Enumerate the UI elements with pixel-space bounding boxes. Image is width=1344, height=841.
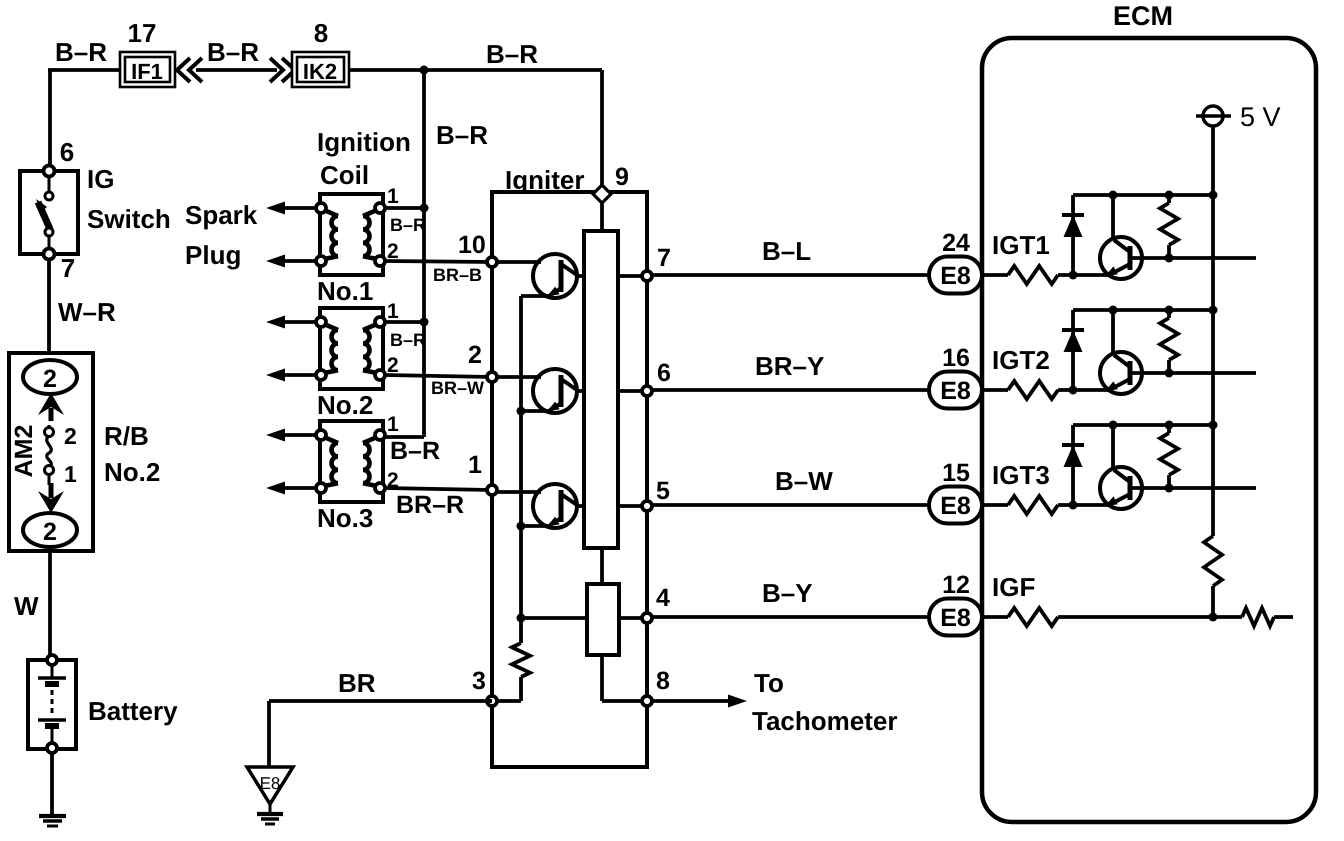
transistor Q6 (ECM output stage) xyxy=(1100,467,1142,509)
wire B-R from IG switch pin 6 up and right to connector IF1 xyxy=(48,70,52,170)
resistor R5 (pull-up to rail) xyxy=(1167,310,1171,318)
wire W from relay block to battery xyxy=(48,551,52,656)
svg-text:B–R: B–R xyxy=(390,330,426,350)
wire BR-R coil No.3 pin 2 to igniter pin 1 xyxy=(385,488,492,490)
svg-text:7: 7 xyxy=(61,253,75,283)
emitter rail inside igniter xyxy=(519,296,523,643)
svg-text:9: 9 xyxy=(615,163,629,191)
svg-text:8: 8 xyxy=(656,667,670,695)
svg-text:Coil: Coil xyxy=(320,160,369,190)
wire supply rail (Q5 stage) xyxy=(1073,308,1213,312)
svg-text:7: 7 xyxy=(657,244,671,272)
battery terminal bottom xyxy=(47,743,57,753)
igniter box xyxy=(492,192,647,767)
svg-text:E8: E8 xyxy=(260,774,281,793)
svg-text:B–R: B–R xyxy=(436,120,488,150)
svg-text:B–R: B–R xyxy=(390,437,440,465)
svg-text:IF1: IF1 xyxy=(131,59,163,84)
wire base line of Q4 xyxy=(1130,256,1256,260)
resistor R6 (pull-up to rail) xyxy=(1167,425,1171,433)
svg-text:1: 1 xyxy=(468,451,482,479)
spark plug wire arrows (No.1) xyxy=(280,206,318,210)
svg-text:B–W: B–W xyxy=(775,466,833,496)
svg-text:No.2: No.2 xyxy=(104,457,160,487)
svg-text:Switch: Switch xyxy=(87,204,171,234)
svg-text:1: 1 xyxy=(387,300,399,323)
resistor (IGT2 input) xyxy=(982,388,1008,392)
resistor (IGT3 input) xyxy=(982,503,1008,507)
svg-text:E8: E8 xyxy=(940,604,971,632)
svg-text:B–L: B–L xyxy=(762,236,811,266)
wire supply rail (Q4 stage) xyxy=(1073,193,1213,197)
wire base input to Q3 xyxy=(492,490,541,494)
node junction at coil No.2 pin 1 xyxy=(420,318,429,327)
svg-text:1: 1 xyxy=(64,461,77,487)
resistor R4 (pull-up to rail) xyxy=(1167,195,1171,203)
wire emitter of Q1 to common rail xyxy=(521,294,550,298)
node emitter to sense resistor junction xyxy=(517,614,526,623)
svg-text:3: 3 xyxy=(472,667,486,695)
wire emitter of Q3 to common rail xyxy=(521,524,550,528)
transistor Q4 (ECM output stage) xyxy=(1100,237,1142,279)
wire input to transistor Q6 xyxy=(1058,503,1110,507)
transistor Q2 (igniter driver) xyxy=(533,369,577,413)
connector E8 pin 16 (IGT2) xyxy=(929,372,982,409)
svg-text:IG: IG xyxy=(87,164,114,194)
node emitter junction Q2 xyxy=(517,407,526,416)
node diamond junction pin 9 xyxy=(593,185,611,203)
diode D3 (clamp to rail) xyxy=(1071,425,1075,505)
svg-text:Spark: Spark xyxy=(185,200,258,230)
transistor Q1 (igniter driver) xyxy=(533,254,577,298)
wire BR-W coil No.2 pin 2 to igniter pin 2 xyxy=(385,375,492,377)
IG switch SW1 xyxy=(20,171,78,254)
svg-text:2: 2 xyxy=(43,365,57,393)
svg-text:BR: BR xyxy=(338,668,376,698)
svg-text:Tachometer: Tachometer xyxy=(752,706,897,736)
connector IF1 xyxy=(120,52,175,87)
svg-text:W: W xyxy=(14,591,39,621)
svg-text:IGT2: IGT2 xyxy=(992,345,1050,375)
arrow down into bottom cavity xyxy=(49,483,54,498)
IG switch pin 7 terminal xyxy=(44,249,55,260)
ignition coil No.3 xyxy=(320,421,383,502)
svg-text:1: 1 xyxy=(387,185,399,208)
wire emitter of Q2 to common rail xyxy=(521,409,550,413)
svg-text:17: 17 xyxy=(128,18,157,48)
ignition coil No.2 xyxy=(320,308,383,389)
coil No.2 terminals xyxy=(316,317,326,327)
svg-text:5 V: 5 V xyxy=(1240,102,1281,132)
ECM box xyxy=(982,38,1316,822)
node junctions (Q6 stage) xyxy=(1109,421,1118,430)
igniter internal output bar xyxy=(584,231,618,548)
svg-text:10: 10 xyxy=(458,231,486,259)
svg-text:12: 12 xyxy=(942,571,970,599)
svg-text:2: 2 xyxy=(468,341,482,369)
svg-text:Ignition: Ignition xyxy=(317,127,411,157)
node junctions (Q4 stage) xyxy=(1109,191,1118,200)
wire resistor to igniter pin 4 xyxy=(619,616,647,620)
wire supply rail (Q6 stage) xyxy=(1073,423,1213,427)
svg-text:To: To xyxy=(754,668,784,698)
battery B1 xyxy=(28,660,76,749)
svg-text:IGT1: IGT1 xyxy=(992,230,1050,260)
svg-text:BR–R: BR–R xyxy=(396,491,464,519)
coil No.3 terminals xyxy=(316,430,326,440)
diode D2 (clamp to rail) xyxy=(1071,310,1075,390)
wire B-R from IK2 to igniter top xyxy=(349,68,602,72)
resistor (5V rail series) xyxy=(1204,536,1222,586)
wire input to transistor Q4 xyxy=(1058,273,1110,277)
wire BR from igniter pin 3 to ground E8 xyxy=(269,699,492,703)
wire W-R from IG switch to relay block xyxy=(47,259,51,353)
svg-text:B–R: B–R xyxy=(207,37,259,67)
svg-text:BR–W: BR–W xyxy=(431,378,484,398)
connector E8 pin 12 (IGF) xyxy=(929,599,982,636)
node junctions (Q5 stage) xyxy=(1109,306,1118,315)
5V supply symbol xyxy=(1203,106,1223,126)
spark plug wire arrows (No.2) xyxy=(280,320,318,324)
connector cavity 2 (top oval) xyxy=(23,360,77,394)
wire coil No.2 pin 1 to B-R feed xyxy=(385,320,424,324)
wire coil No.1 pin 1 to B-R feed xyxy=(385,206,424,210)
wire BR–Y igniter to ECM IGT2 xyxy=(652,388,929,392)
coil No.1 terminals xyxy=(316,203,326,213)
igniter pin terminals (left: 10,2,1,3) xyxy=(487,257,497,267)
svg-text:ECM: ECM xyxy=(1113,1,1173,31)
svg-text:IK2: IK2 xyxy=(303,59,337,84)
arrow up into cavity xyxy=(49,408,54,421)
IG switch pin 6 terminal xyxy=(44,166,55,177)
node emitter junction Q3 xyxy=(517,522,526,531)
svg-text:1: 1 xyxy=(387,413,399,436)
wire BR-B coil No.1 pin 2 to igniter pin 10 xyxy=(385,261,492,262)
transistor Q5 (ECM output stage) xyxy=(1100,352,1142,394)
fuse AM2 xyxy=(48,425,51,429)
ground (battery) xyxy=(39,814,66,818)
IGF line to 5V rail xyxy=(1058,615,1213,619)
connector cavity 2 (bottom oval) xyxy=(23,513,77,547)
svg-text:5: 5 xyxy=(656,477,670,505)
svg-text:2: 2 xyxy=(64,423,77,449)
wire with double arrowheads between IF1 and IK2 xyxy=(196,68,277,72)
wire base input to Q1 xyxy=(492,260,541,264)
svg-text:IGT3: IGT3 xyxy=(992,460,1050,490)
svg-text:B–R: B–R xyxy=(390,215,426,235)
svg-text:BR–Y: BR–Y xyxy=(755,351,824,381)
spark plug wire arrows (No.3) xyxy=(280,433,318,437)
wire B–L igniter to ECM IGT1 xyxy=(652,273,929,277)
resistor (igniter emitter shunt) xyxy=(512,643,530,677)
ignition coil No.1 xyxy=(320,194,383,275)
svg-text:16: 16 xyxy=(942,344,970,372)
svg-text:W–R: W–R xyxy=(58,297,116,327)
wire B-R vertical down to ignition coils xyxy=(422,70,426,437)
svg-text:6: 6 xyxy=(60,137,74,167)
svg-text:15: 15 xyxy=(942,459,970,487)
svg-text:No.2: No.2 xyxy=(317,390,373,420)
svg-text:8: 8 xyxy=(314,18,328,48)
connector E8 pin 15 (IGT3) xyxy=(929,487,982,524)
svg-text:No.1: No.1 xyxy=(317,276,373,306)
svg-text:B–R: B–R xyxy=(486,39,538,69)
svg-text:24: 24 xyxy=(942,229,970,257)
ground E8 (triangle) xyxy=(247,767,293,804)
svg-text:AM2: AM2 xyxy=(10,425,38,478)
svg-text:Plug: Plug xyxy=(185,240,241,270)
svg-text:IGF: IGF xyxy=(992,572,1035,602)
svg-text:2: 2 xyxy=(43,518,57,546)
transistor Q3 (igniter driver) xyxy=(533,484,577,528)
connector E8 pin 24 (IGT1) xyxy=(929,257,982,294)
wire igniter pin 8 to tachometer xyxy=(652,699,733,703)
svg-text:E8: E8 xyxy=(940,377,971,405)
wire input to transistor Q5 xyxy=(1058,388,1110,392)
svg-text:R/B: R/B xyxy=(104,421,149,451)
relay block R/B No.2 with fuse AM2 xyxy=(9,353,93,551)
connector IK2 xyxy=(292,52,349,87)
wire B–Y igniter to ECM IGF xyxy=(652,615,929,619)
wire bar to igniter pin 7 xyxy=(618,274,647,278)
battery terminal top xyxy=(47,655,57,665)
node junction at coil No.1 pin 1 xyxy=(420,204,429,213)
svg-text:E8: E8 xyxy=(940,492,971,520)
wire bar to igniter pin 6 xyxy=(618,389,647,393)
svg-text:BR–B: BR–B xyxy=(433,265,482,285)
resistor (IGF right) xyxy=(1242,608,1274,626)
wire bar to igniter pin 5 xyxy=(618,504,647,508)
resistor (IGF input) xyxy=(982,615,1008,619)
svg-text:6: 6 xyxy=(657,359,671,387)
resistor (IGT1 input) xyxy=(982,273,1008,277)
igniter pin terminals (right: 7,6,5,4,8) xyxy=(642,271,652,281)
svg-text:B–R: B–R xyxy=(55,37,107,67)
svg-text:4: 4 xyxy=(656,584,670,612)
node IGF / 5V rail junction xyxy=(1209,613,1218,622)
diode D1 (clamp to rail) xyxy=(1071,195,1075,275)
wire base line of Q6 xyxy=(1130,486,1256,490)
wire base line of Q5 xyxy=(1130,371,1256,375)
resistor (igniter output, box style) xyxy=(600,548,604,584)
svg-text:Battery: Battery xyxy=(88,696,178,726)
wire battery to ground xyxy=(50,753,54,815)
svg-text:E8: E8 xyxy=(940,262,971,290)
svg-text:No.3: No.3 xyxy=(317,503,373,533)
wire B–W igniter to ECM IGT3 xyxy=(652,503,929,507)
svg-text:B–Y: B–Y xyxy=(762,578,813,608)
wire base input to Q2 xyxy=(492,375,541,379)
node: junction on B-R wire feeding coils xyxy=(420,66,429,75)
5V rail xyxy=(1211,126,1215,536)
